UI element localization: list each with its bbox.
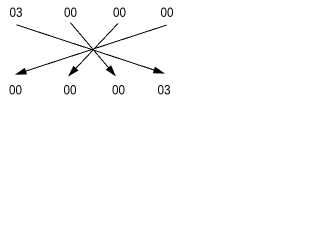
svg-text:00: 00 — [64, 4, 77, 20]
byte-swap diagram — [0, 0, 208, 105]
wire arrow top1 to bottom4 — [17, 25, 166, 74]
svg-text:00: 00 — [161, 4, 174, 20]
svg-text:00: 00 — [112, 82, 125, 98]
svg-text:03: 03 — [10, 4, 23, 20]
svg-text:00: 00 — [113, 4, 126, 20]
svg-text:00: 00 — [9, 82, 22, 98]
wire arrow top2 to bottom3 — [70, 23, 116, 77]
svg-text:00: 00 — [64, 82, 77, 98]
svg-text:03: 03 — [158, 82, 171, 98]
wire arrow top3 to bottom2 — [68, 24, 118, 77]
wire arrow top4 to bottom1 — [15, 25, 167, 75]
